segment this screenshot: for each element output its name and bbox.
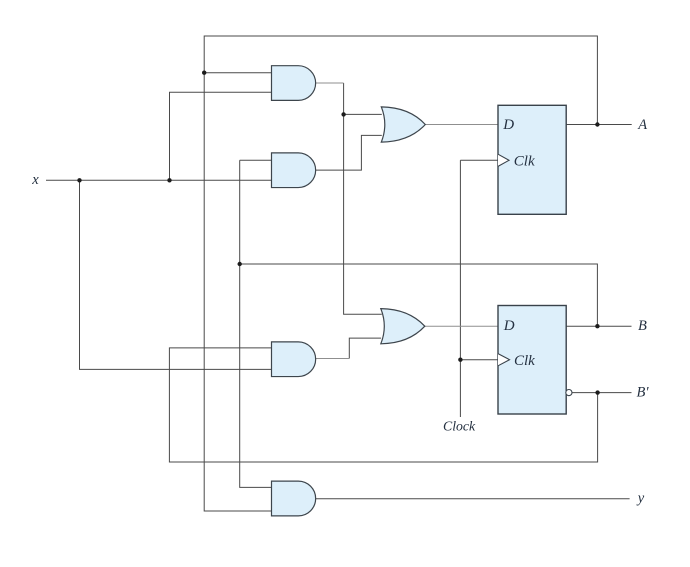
wire B feedback horizontal to B output node (240, 264, 598, 326)
svg-text:D: D (503, 318, 515, 334)
wire OR1 output to D of flip-flop 1 (425, 124, 498, 126)
wire AND3 output riser to OR2 lower input (349, 338, 381, 358)
wire B output (566, 325, 631, 327)
svg-text:A: A (637, 117, 647, 133)
OR gate 2 (381, 309, 425, 344)
wire OR2 output to D of flip-flop 2 (425, 325, 498, 327)
flip-flop 1 clock triangle (498, 154, 509, 166)
svg-text:x: x (31, 172, 39, 188)
wire OR1 upper input (344, 113, 382, 115)
wire A feedback: from node at x=597 up, across top, down left side, to AND4 lower input (204, 36, 597, 511)
flip-flop 2 complement bubble (566, 390, 572, 396)
AND gate 2 (272, 153, 316, 188)
wire AND3 output stub (316, 358, 350, 360)
node on Clock line at flip-flop 2 (458, 358, 462, 362)
wire B' feedback down, across, up to AND3 upper input (169, 348, 597, 462)
wire AND2 upper input (240, 159, 272, 161)
wire x branch up to AND1 lower input (170, 92, 272, 180)
flip-flop 2 (B) box (498, 306, 566, 415)
node on x wire at AND3 branch (77, 178, 81, 182)
wire x branch down to AND3 lower input (80, 180, 272, 369)
node on B feedback vertical (238, 262, 242, 266)
node on A feedback at AND1 upper input (202, 71, 206, 75)
wire A output (566, 124, 632, 126)
wire AND1 output vertical down to OR2 upper input (344, 83, 382, 314)
node on B' output (595, 390, 599, 394)
wire AND1 upper input from A feedback vertical (204, 72, 272, 74)
svg-text:Clk: Clk (514, 153, 535, 169)
wire Clk input flip-flop 2 (460, 359, 498, 361)
flip-flop 1 (A) box (498, 105, 566, 214)
AND gate 3 (272, 342, 316, 377)
svg-text:Clk: Clk (514, 353, 535, 369)
wire AND2 output to OR1 lower input (316, 135, 382, 170)
wire Clk input flip-flop 1 (460, 159, 498, 161)
node on AND1 output vertical at OR1 input (341, 112, 345, 116)
svg-text:Clock: Clock (443, 419, 476, 434)
wire y output from AND4 (316, 498, 630, 500)
wire B feedback vertical from AND2 input level down to AND4 upper input (240, 160, 272, 487)
svg-text:D: D (502, 117, 514, 133)
node on B output (595, 324, 599, 328)
svg-text:B′: B′ (637, 385, 650, 401)
wire B' output (572, 392, 631, 394)
svg-text:B: B (638, 318, 647, 334)
svg-text:y: y (636, 490, 645, 506)
OR gate 1 (381, 107, 425, 142)
wire x input horizontal (46, 179, 272, 181)
node on A output (595, 122, 599, 126)
AND gate 1 (272, 66, 316, 101)
node on x wire at AND1 branch (167, 178, 171, 182)
flip-flop 2 clock triangle (498, 354, 510, 366)
wire AND1 output stub (316, 82, 344, 84)
wire Clock vertical (459, 160, 461, 417)
AND gate 4 (272, 481, 316, 516)
